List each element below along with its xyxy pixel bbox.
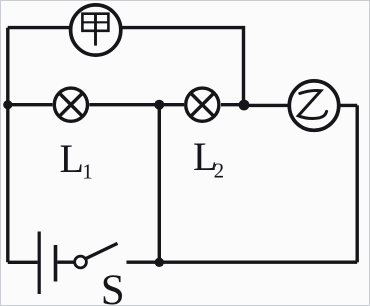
svg-text:1: 1	[82, 160, 93, 184]
svg-text:2: 2	[214, 159, 225, 183]
svg-text:L: L	[60, 136, 84, 181]
svg-text:S: S	[101, 267, 125, 306]
